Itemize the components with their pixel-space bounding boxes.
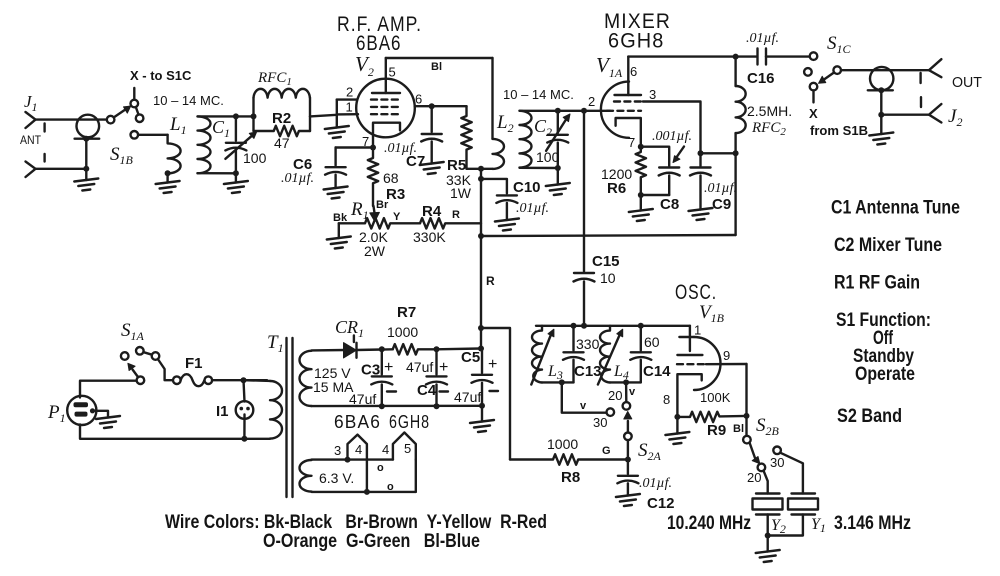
node RFC1 left xyxy=(251,113,257,119)
svg-text:R1 RF Gain: R1 RF Gain xyxy=(834,273,920,294)
wire F1 to T1 xyxy=(212,379,267,381)
ground below C7 xyxy=(420,162,444,174)
resistor R2 xyxy=(252,116,254,131)
svg-text:C9: C9 xyxy=(712,196,731,213)
svg-text:68: 68 xyxy=(383,170,399,186)
svg-text:2: 2 xyxy=(346,85,353,100)
ground below J2 xyxy=(880,115,882,134)
resistor R6 xyxy=(636,147,646,195)
lamp I1 xyxy=(244,380,245,401)
svg-text:30: 30 xyxy=(593,415,607,430)
svg-text:R3: R3 xyxy=(386,186,405,203)
svg-text:X - to S1C: X - to S1C xyxy=(130,68,192,83)
wire L4 tap to S2A 20 xyxy=(625,382,628,402)
switch S2A wiper arrow xyxy=(627,421,629,432)
inductor L2 primary xyxy=(493,139,505,169)
tube V1B cathode xyxy=(677,374,701,417)
wire pin9 down to S2B xyxy=(745,364,747,436)
svg-text:C14: C14 xyxy=(643,363,671,380)
switch S2B contact 30 xyxy=(773,447,781,455)
wire bushing to sleeve xyxy=(85,139,87,169)
capacitor C9 xyxy=(699,153,701,166)
diode CR1 xyxy=(344,343,357,358)
resistor R9 xyxy=(677,412,746,422)
plug P1 circle xyxy=(67,396,96,425)
wire S1B pole up xyxy=(133,88,135,100)
jack J1 sleeve arm xyxy=(26,162,36,178)
wire S1C to OUT xyxy=(841,69,930,71)
switch S1B wiper arrow xyxy=(114,110,125,117)
connector bushing circle at J1 xyxy=(77,115,100,138)
svg-text:10.240 MHz: 10.240 MHz xyxy=(667,513,751,534)
node pin7 xyxy=(370,145,376,151)
ground at R1 left xyxy=(338,223,340,238)
wire L3 tap to S2A 30 xyxy=(562,382,607,412)
switch S2B contact 20 xyxy=(758,464,766,472)
switch S1A contact left xyxy=(121,352,129,360)
tube V1B envelope half circle xyxy=(694,337,721,390)
svg-text:R1: R1 xyxy=(350,199,369,222)
svg-text:Bk: Bk xyxy=(333,212,348,224)
fuse F1 xyxy=(173,376,181,384)
wire RFC2 bottom to B+ xyxy=(734,153,736,235)
wire pole D down to X xyxy=(812,90,814,102)
svg-text:P1: P1 xyxy=(47,402,66,425)
wire P1 top to S1A xyxy=(80,381,137,398)
svg-text:8: 8 xyxy=(663,392,670,407)
capacitor C14 xyxy=(640,326,642,351)
wire diode to node xyxy=(357,348,393,351)
svg-text:R2: R2 xyxy=(272,110,291,127)
wire Bl down to L2 xyxy=(491,58,493,139)
heater 6BA6 leg down xyxy=(366,460,368,492)
inductor L3 variable xyxy=(532,326,542,383)
transformer T1 HV secondary xyxy=(300,351,312,406)
svg-text:1000: 1000 xyxy=(387,324,418,340)
capacitor C6 xyxy=(334,148,336,166)
wire B+ horizontal xyxy=(481,235,736,236)
ground below pin8 xyxy=(676,417,678,434)
svg-text:30: 30 xyxy=(770,455,784,470)
wire pin2 to ground xyxy=(336,100,338,128)
node pin7 V1A xyxy=(638,144,644,150)
heater 6GH8 leg down xyxy=(415,460,417,492)
svg-text:I1: I1 xyxy=(216,403,229,420)
tube V1A plate xyxy=(615,94,642,96)
svg-text:S2B: S2B xyxy=(756,415,780,438)
switch S1A contact right xyxy=(152,352,160,360)
svg-text:v: v xyxy=(629,386,636,398)
svg-text:.01µf.: .01µf. xyxy=(704,181,737,196)
capacitor C12 xyxy=(627,460,629,475)
svg-text:S2 Band: S2 Band xyxy=(837,406,902,427)
svg-text:9: 9 xyxy=(723,348,730,363)
svg-text:6BA6: 6BA6 xyxy=(334,412,381,432)
jack OUT arm xyxy=(929,59,941,77)
svg-text:Y: Y xyxy=(393,211,401,223)
wire secondary to diode xyxy=(312,349,346,352)
svg-text:3: 3 xyxy=(649,87,656,102)
switch S1C contact A xyxy=(810,52,818,60)
tube V1A envelope half circle xyxy=(601,82,629,138)
svg-text:S2A: S2A xyxy=(638,440,662,463)
svg-text:2.5MH.: 2.5MH. xyxy=(747,103,792,119)
wire L3 bottom xyxy=(542,381,574,383)
svg-text:4: 4 xyxy=(382,442,389,457)
resistor R7 xyxy=(393,344,437,354)
ground at V2 pin2 xyxy=(325,126,349,138)
resistor R5 xyxy=(461,106,471,169)
capacitor C2 variable xyxy=(555,108,561,114)
ground at P1 xyxy=(96,416,120,428)
svg-text:ANT: ANT xyxy=(20,133,42,147)
svg-text:R8: R8 xyxy=(561,469,580,486)
wire L2 bottom to C2 xyxy=(520,167,558,170)
svg-text:5: 5 xyxy=(389,65,396,80)
svg-text:60: 60 xyxy=(644,334,660,350)
switch S1B pole xyxy=(131,100,139,108)
svg-text:7: 7 xyxy=(628,135,635,150)
svg-text:S1C: S1C xyxy=(827,33,852,56)
inductor L4 variable xyxy=(600,326,610,383)
svg-text:2: 2 xyxy=(588,94,595,109)
heater 6BA6 xyxy=(348,435,367,460)
svg-text:Br: Br xyxy=(376,199,389,211)
wire R7 to R node xyxy=(437,347,482,350)
tube V1A grid row g1 xyxy=(607,110,641,112)
tube V1A grid row g2 xyxy=(614,100,641,102)
wire V1A plate to top rail xyxy=(628,55,735,57)
switch S1C contact B xyxy=(804,68,812,76)
switch S2A contact 30 xyxy=(607,408,615,416)
jack J2 arm xyxy=(881,113,929,115)
svg-text:C2 Mixer Tune: C2 Mixer Tune xyxy=(834,235,942,256)
svg-text:.01µf.: .01µf. xyxy=(746,31,779,46)
capacitor C1 variable xyxy=(235,116,237,140)
svg-text:+: + xyxy=(439,359,448,376)
ground below C12 xyxy=(616,494,640,506)
switch S1A link xyxy=(144,352,152,355)
svg-text:X: X xyxy=(809,106,818,121)
wire to C10 xyxy=(481,179,507,194)
svg-text:RFC1: RFC1 xyxy=(257,70,292,88)
svg-text:6: 6 xyxy=(415,92,422,107)
svg-text:L1: L1 xyxy=(169,114,187,137)
svg-text:OUT: OUT xyxy=(952,74,982,91)
tube V2 plate xyxy=(372,92,400,94)
svg-text:6.3 V.: 6.3 V. xyxy=(319,470,354,486)
heater bottom rail xyxy=(312,491,416,493)
wire pin1 grid xyxy=(337,113,358,116)
svg-text:.01µf.: .01µf. xyxy=(281,171,314,186)
svg-text:100: 100 xyxy=(536,149,560,165)
tube V2 envelope xyxy=(356,79,415,138)
svg-text:47uf: 47uf xyxy=(349,391,376,407)
oscillator tank rail xyxy=(536,325,690,327)
svg-text:Bl: Bl xyxy=(733,423,744,435)
capacitor C7 xyxy=(431,106,433,132)
wire S2B 20 to Y2 xyxy=(764,471,768,494)
switch S1C contact C xyxy=(833,66,841,74)
heater 6GH8 xyxy=(393,433,416,460)
svg-text:+: + xyxy=(488,356,497,373)
svg-text:F1: F1 xyxy=(185,355,203,372)
svg-text:L2: L2 xyxy=(496,112,514,135)
wire L1 top to C1 xyxy=(198,115,254,117)
capacitor C8 xyxy=(641,147,669,166)
svg-text:R9: R9 xyxy=(707,422,726,439)
wire S1B to L1 xyxy=(138,134,168,136)
svg-text:C1 Antenna Tune: C1 Antenna Tune xyxy=(831,198,960,219)
ground below C2 xyxy=(557,168,559,185)
svg-text:C4: C4 xyxy=(417,382,437,399)
switch S1C pole D xyxy=(810,83,818,91)
svg-text:Operate: Operate xyxy=(855,364,915,385)
inductor RFC1 xyxy=(252,98,254,117)
svg-text:v: v xyxy=(580,400,587,412)
svg-text:2W: 2W xyxy=(364,243,386,259)
wire S1A to F1 xyxy=(158,359,173,380)
svg-text:20: 20 xyxy=(747,470,761,485)
svg-text:J2: J2 xyxy=(948,106,962,129)
svg-text:47uf: 47uf xyxy=(454,389,481,405)
svg-text:.001µf.: .001µf. xyxy=(652,129,692,144)
svg-text:C3: C3 xyxy=(361,362,380,379)
svg-text:47: 47 xyxy=(274,135,290,151)
switch S2B pole xyxy=(743,436,751,444)
svg-text:C10: C10 xyxy=(513,179,541,196)
capacitor C4 xyxy=(435,349,437,374)
capacitor C16 xyxy=(736,55,757,57)
svg-text:C2: C2 xyxy=(534,116,552,139)
svg-text:3.146 MHz: 3.146 MHz xyxy=(834,513,911,534)
svg-text:1000: 1000 xyxy=(547,436,578,452)
inductor RFC2 xyxy=(734,57,736,86)
wire bushing to J2 xyxy=(880,90,882,114)
ground below R6 xyxy=(640,195,642,211)
wire pin7 to C6 xyxy=(336,146,373,148)
svg-text:R4: R4 xyxy=(422,203,442,220)
wire L4 bottom xyxy=(610,381,641,383)
wire pin2 xyxy=(337,98,357,100)
capacitor C5 xyxy=(481,349,483,374)
svg-text:R: R xyxy=(486,274,495,288)
svg-text:S1B: S1B xyxy=(110,144,134,167)
transformer T1 primary xyxy=(270,381,282,439)
wire S2B 30 to Y1 xyxy=(781,453,803,494)
capacitor C3 xyxy=(381,349,383,374)
wire pin3 screen xyxy=(643,102,701,154)
wire L1 bottom to C1 xyxy=(198,172,236,175)
svg-text:.01µf.: .01µf. xyxy=(516,201,549,216)
node J1 shield xyxy=(83,136,89,142)
svg-text:100: 100 xyxy=(243,150,267,166)
svg-text:Wire Colors: Bk-Black Br-Bro: Wire Colors: Bk-Black Br-Brown Y-Yellow … xyxy=(165,512,547,533)
jack J1 tip arm xyxy=(26,112,36,128)
switch S2A pole circle xyxy=(624,433,632,441)
wire R5 bottom to L2 primary bottom xyxy=(467,168,493,170)
ground below crystals xyxy=(767,536,769,552)
tube V1B grid xyxy=(677,363,706,365)
svg-text:C5: C5 xyxy=(461,349,480,366)
switch S2B wiper arrow xyxy=(750,443,756,459)
crystal Y2 xyxy=(756,492,780,494)
ground at J1 xyxy=(85,169,87,180)
svg-text:C8: C8 xyxy=(660,196,679,213)
svg-text:R7: R7 xyxy=(397,304,416,321)
svg-text:o: o xyxy=(377,462,384,474)
tube V1A cathode xyxy=(616,118,641,147)
svg-text:V1B: V1B xyxy=(699,302,725,325)
svg-text:L3: L3 xyxy=(547,363,563,382)
potentiometer R1 wiper arrow xyxy=(374,206,375,213)
svg-text:10 – 14 MC.: 10 – 14 MC. xyxy=(503,87,574,102)
svg-text:3: 3 xyxy=(334,443,341,458)
resistor R8 xyxy=(510,454,628,464)
wire pin9 xyxy=(706,363,747,366)
svg-text:R6: R6 xyxy=(607,180,626,197)
svg-text:Y1: Y1 xyxy=(811,516,826,535)
switch S1B lower contact xyxy=(131,131,139,139)
wire rail to V1B pin1 xyxy=(689,326,691,351)
svg-text:C7: C7 xyxy=(406,153,425,170)
svg-text:O-Orange G-Green Bl-Blue: O-Orange G-Green Bl-Blue xyxy=(263,531,480,552)
switch S1A contact mid xyxy=(136,347,144,355)
heater top rail xyxy=(312,458,393,460)
wire P1 bottom rail xyxy=(80,425,244,439)
svg-text:RFC2: RFC2 xyxy=(751,120,786,138)
wire pin6 screen xyxy=(415,105,467,107)
svg-text:V2: V2 xyxy=(355,52,374,79)
svg-text:1: 1 xyxy=(346,100,353,115)
svg-text:C15: C15 xyxy=(592,253,620,270)
svg-text:1W: 1W xyxy=(450,185,472,201)
svg-text:5: 5 xyxy=(404,441,411,456)
wire B+ to osc feed xyxy=(481,328,510,460)
svg-text:4: 4 xyxy=(355,442,362,457)
svg-text:OSC.: OSC. xyxy=(675,281,717,304)
transformer T1 core xyxy=(285,338,287,497)
tube V1B lower bar xyxy=(677,354,702,356)
svg-text:10 – 14 MC.: 10 – 14 MC. xyxy=(153,93,224,108)
ground below C1 xyxy=(235,173,237,182)
wire R2 to V2 grid xyxy=(310,115,337,117)
svg-text:C13: C13 xyxy=(574,363,602,380)
svg-text:C1: C1 xyxy=(212,117,230,140)
switch S2A contact 20 xyxy=(623,402,631,410)
svg-text:10: 10 xyxy=(600,270,616,286)
resistor R1 xyxy=(339,218,420,228)
ground below C6 xyxy=(324,187,348,199)
svg-text:6GH8: 6GH8 xyxy=(389,412,430,432)
svg-text:L4: L4 xyxy=(613,363,629,382)
inductor L1 primary xyxy=(168,135,181,174)
svg-text:15 MA: 15 MA xyxy=(313,379,354,395)
svg-text:+: + xyxy=(384,359,393,376)
svg-text:from S1B: from S1B xyxy=(810,123,868,138)
ground below C10 xyxy=(495,219,519,231)
ground at C5 xyxy=(481,406,483,422)
svg-text:V1A: V1A xyxy=(596,53,623,80)
switch S1C wiper from C xyxy=(824,73,834,80)
svg-text:1: 1 xyxy=(694,323,701,338)
svg-text:R: R xyxy=(452,209,460,221)
svg-text:T1: T1 xyxy=(267,332,284,355)
ground below L1 primary xyxy=(166,173,168,182)
plug P1 prongs xyxy=(74,402,89,407)
svg-text:o: o xyxy=(387,481,394,493)
resistor R3 xyxy=(368,148,378,207)
svg-text:6GH8: 6GH8 xyxy=(608,30,665,53)
svg-text:CR1: CR1 xyxy=(335,317,364,340)
switch S1A wiper arrow xyxy=(133,370,139,378)
svg-text:S1A: S1A xyxy=(121,320,145,343)
svg-text:330: 330 xyxy=(576,336,600,352)
capacitor C13 xyxy=(572,326,574,351)
connector bushing at output xyxy=(870,67,893,90)
wire plate top Bl xyxy=(386,57,493,59)
svg-text:C16: C16 xyxy=(747,70,775,87)
svg-text:100K: 100K xyxy=(700,390,731,405)
DC minus rail xyxy=(312,405,483,408)
capacitor C10 xyxy=(497,194,517,196)
svg-text:Y2: Y2 xyxy=(771,517,786,536)
svg-text:Bl: Bl xyxy=(431,61,442,73)
wire P1 ground stub xyxy=(95,411,108,418)
wire S2A pole to R8 node xyxy=(627,440,629,459)
svg-text:.01µf.: .01µf. xyxy=(639,476,672,491)
svg-text:47uf: 47uf xyxy=(406,359,433,375)
transformer T1 6.3V winding xyxy=(300,460,312,492)
tube V2 grid rows xyxy=(371,98,401,100)
svg-text:G: G xyxy=(602,445,611,457)
crystal Y1 xyxy=(792,492,816,494)
main B+ vertical wire R xyxy=(480,169,482,349)
switch S1A pole xyxy=(137,376,145,384)
switch S1B right contact xyxy=(136,114,144,122)
svg-text:C12: C12 xyxy=(647,495,675,512)
wire screen node to RFC2 bottom xyxy=(701,152,736,154)
svg-text:330K: 330K xyxy=(413,229,446,245)
svg-text:20: 20 xyxy=(608,388,622,403)
tube V1B plate bar xyxy=(679,336,694,338)
wire C2 to V1A grid xyxy=(558,110,610,112)
resistor R4 xyxy=(420,218,481,228)
svg-text:6: 6 xyxy=(630,64,637,79)
switch S1B left contact xyxy=(107,116,115,124)
ground below C9 xyxy=(689,208,713,220)
svg-text:J1: J1 xyxy=(24,92,38,114)
inductor L2 secondary xyxy=(520,110,558,112)
wire mixer grid down to C15 xyxy=(583,111,585,272)
tube V2 cathode xyxy=(373,123,400,148)
inductor L1 secondary xyxy=(198,116,211,173)
capacitor C15 xyxy=(574,272,594,274)
